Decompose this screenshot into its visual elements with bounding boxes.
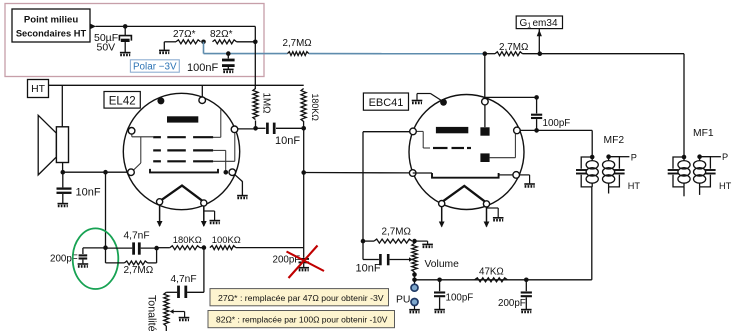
svg-text:MF2: MF2 — [604, 135, 625, 146]
ground (200pF rail) — [521, 310, 532, 312]
wire anode to HT rail — [201, 85, 203, 97]
green highlight ellipse — [73, 228, 119, 289]
node: pot bottom — [412, 272, 417, 277]
wire from blue node down to EBC41 — [484, 54, 486, 99]
resistor 2,7Mohm (volume) — [363, 240, 374, 242]
svg-text:EL42: EL42 — [109, 96, 136, 108]
node: 100pF rail tap — [437, 278, 442, 283]
IF transformer MF2 — [590, 155, 595, 160]
wire 303 column down to 100K rail — [303, 173, 305, 248]
resistor 2,7Mohm (top middle) — [288, 52, 309, 56]
svg-text:100nF: 100nF — [187, 62, 218, 74]
svg-text:4,7nF: 4,7nF — [124, 231, 150, 242]
svg-text:2,7MΩ: 2,7MΩ — [283, 38, 312, 49]
ground (PU) — [414, 306, 416, 309]
heater arrow right (EBC41) — [486, 207, 488, 227]
MF2 HT stub — [608, 187, 610, 194]
svg-text:P: P — [631, 152, 637, 162]
PU jack upper — [411, 284, 418, 291]
svg-text:HT: HT — [719, 181, 732, 191]
heater arrow right — [203, 206, 205, 226]
capacitor 4,7nF (tone) — [177, 286, 180, 298]
capacitor 10nF (coupling to 180K) — [256, 127, 266, 129]
wire rail to MF2 — [591, 187, 593, 280]
wire EBC41 grid column — [362, 132, 364, 241]
ground (50uF) — [120, 53, 131, 55]
EBC41 left pins — [410, 128, 417, 135]
EL42 internal routing — [220, 110, 222, 138]
wire EBC41 diode pin to MF2 — [520, 129, 592, 131]
ground (EBC41 heater) — [487, 207, 499, 209]
svg-text:100pF: 100pF — [446, 293, 474, 304]
EBC41 filament — [442, 186, 487, 203]
svg-text:MF1: MF1 — [693, 128, 714, 139]
ground (deleted 200pF) — [298, 268, 309, 270]
EBC41 cathode — [432, 173, 499, 178]
IF transformer MF1 — [682, 155, 687, 160]
wire to tone capacitor — [203, 248, 205, 293]
EBC41 top pin — [482, 98, 489, 105]
ground (100pF rail) — [434, 310, 445, 312]
wire HT column — [254, 26, 256, 89]
power supply annotation frame (pink) — [5, 4, 264, 77]
EBC41 right upper pin — [514, 127, 521, 134]
wire detector rail — [415, 279, 592, 281]
EBC41 grid (dashed row) — [433, 147, 448, 149]
red deletion cross — [287, 252, 325, 272]
arrow from Point milieu box — [90, 24, 96, 30]
EL42 bottom pins (heater) — [157, 199, 163, 205]
EL42 left pins — [128, 128, 135, 135]
svg-text:Volume: Volume — [425, 259, 460, 270]
tone wiper arrow — [170, 309, 174, 313]
svg-text:10nF: 10nF — [76, 187, 101, 199]
svg-text:82Ω*: 82Ω* — [210, 29, 233, 40]
svg-text:HT: HT — [628, 181, 641, 191]
tube EL42 envelope — [123, 93, 239, 209]
node: to EBC41 grid pin — [301, 170, 306, 175]
EL42 filament — [161, 186, 204, 202]
label box: HT — [28, 80, 49, 98]
wire G1em34 to node (with up arrow) — [538, 29, 540, 54]
ground (200pF cathode) — [78, 264, 89, 266]
label box: Polar -3V — [130, 60, 179, 72]
ground (EBC41 cathode) — [524, 184, 535, 186]
capacitor 100pF (EBC41) — [536, 97, 538, 113]
svg-text:HT: HT — [31, 84, 46, 95]
svg-text:50V: 50V — [97, 42, 116, 54]
svg-text:Tonalité: Tonalité — [146, 295, 158, 331]
svg-text:2,7MΩ: 2,7MΩ — [124, 265, 154, 276]
resistor 1Mohm — [253, 89, 258, 120]
svg-text:100KΩ: 100KΩ — [212, 234, 241, 245]
wire EL42 g2 pin to 1M node — [238, 128, 256, 130]
wire diode line down to MF2 — [591, 130, 593, 157]
note box 27 ohm replacement — [210, 289, 389, 306]
node: cathode RC left — [103, 245, 108, 250]
wire cathode pin to ground — [235, 175, 242, 182]
capacitor 10nF (speaker) — [62, 172, 64, 187]
svg-text:10nF: 10nF — [275, 135, 300, 147]
svg-text:27Ω*: 27Ω* — [173, 29, 196, 40]
svg-text:4,7nF: 4,7nF — [171, 274, 197, 285]
potentiometer Volume — [412, 243, 417, 272]
wire 180K column down — [303, 128, 305, 172]
svg-text:10nF: 10nF — [356, 263, 381, 275]
wire (blue) polarization line — [203, 42, 205, 54]
EL42 top pin (anode) — [199, 97, 206, 104]
heater arrow left (EBC41) — [441, 207, 443, 227]
svg-text:EBC41: EBC41 — [369, 97, 404, 109]
resistor 47Kohm — [475, 278, 508, 282]
node: speaker / cathode rail — [61, 170, 66, 175]
tube EBC41 envelope — [409, 95, 524, 210]
ground (100nF) — [223, 69, 234, 71]
svg-text:G1em34: G1em34 — [520, 18, 558, 30]
node: 200pF rail tap — [524, 278, 529, 283]
speaker (output transformer + cone) — [38, 115, 56, 175]
tube EBC41 label box — [363, 93, 408, 110]
node: volume top — [412, 239, 417, 244]
svg-text:180KΩ: 180KΩ — [173, 234, 202, 245]
resistor 82 ohm (starred) — [213, 40, 237, 44]
potentiometer Tonalite — [164, 292, 169, 326]
capacitor 4,7nF (cathode) — [106, 247, 133, 249]
node: 100pF bottom — [534, 128, 539, 133]
wire marker dot to ground — [416, 94, 418, 100]
capacitor 100pF (rail) — [439, 280, 441, 291]
svg-text:Secondaires HT: Secondaires HT — [16, 29, 87, 39]
node: junction 27/82 ohm — [201, 40, 206, 45]
node: grid/volume junction — [361, 239, 366, 244]
wire cathode network column — [105, 172, 107, 248]
svg-text:Point milieu: Point milieu — [24, 15, 79, 26]
svg-text:2,7MΩ: 2,7MΩ — [382, 227, 411, 238]
svg-text:P: P — [722, 152, 728, 162]
node: 180K/100K junction — [202, 245, 207, 250]
ground (10nF speaker) — [58, 204, 69, 206]
wire top rail from Point milieu — [96, 25, 256, 27]
node: 1M / g2 / 10nF — [253, 126, 258, 131]
node: G1em34 junction — [538, 51, 543, 56]
node: RC right — [154, 246, 159, 251]
svg-text:180KΩ: 180KΩ — [310, 94, 320, 122]
svg-text:1MΩ: 1MΩ — [261, 93, 272, 114]
node: rail to tone network — [103, 170, 108, 175]
node: 100nF tap — [226, 51, 231, 56]
capacitor 100nF — [227, 54, 229, 59]
MF1 stubs — [683, 187, 685, 196]
resistor 2,7Mohm (cathode, parallel) — [105, 248, 107, 263]
node: cathode junction — [224, 170, 229, 175]
svg-text:100pF: 100pF — [543, 118, 571, 129]
EBC41 internals — [484, 105, 486, 127]
capacitor 200pF (deleted, crossed) — [303, 248, 305, 258]
svg-text:PU: PU — [396, 294, 410, 305]
wire MF2 P tap — [619, 156, 629, 158]
EL42 cathode — [150, 169, 218, 173]
node: pot / PU / rail — [412, 278, 417, 283]
EBC41 right lower pin (cathode) — [499, 174, 513, 176]
svg-text:200pF: 200pF — [498, 298, 526, 309]
EBC41 bottom pins (heater) — [439, 201, 445, 207]
node: 50uF tap — [123, 24, 128, 29]
heater arrow left — [159, 205, 161, 226]
ground (EBC41 marker) — [412, 101, 423, 103]
resistor 180Kohm (vertical) — [301, 89, 306, 122]
resistor 2,7Mohm (top right) — [485, 53, 495, 55]
svg-text:2,7MΩ: 2,7MΩ — [499, 42, 528, 53]
wire to MF1 — [540, 53, 684, 55]
EL42 pin-1 marker dot — [157, 97, 164, 104]
node: end of blue line — [483, 51, 488, 56]
wire MF1 P tap — [710, 156, 721, 158]
capacitor 10nF (PU input) — [362, 241, 364, 259]
EL42 anode plate — [167, 116, 198, 122]
resistor 27 ohm (starred) — [164, 41, 176, 43]
wire cathode rail — [63, 171, 128, 173]
node: 180K bottom — [301, 126, 306, 131]
wire to EBC41 lower-left pin — [304, 172, 410, 174]
svg-text:47KΩ: 47KΩ — [479, 267, 504, 278]
svg-text:27Ω* : remplacée par 47Ω pour: 27Ω* : remplacée par 47Ω pour obtenir -3… — [218, 293, 384, 303]
ground (EL42 heater) — [204, 210, 215, 212]
label box: Point milieu / Secondaires HT — [12, 9, 90, 42]
ground (EL42 cathode) — [237, 196, 248, 198]
node: 100pF top — [534, 95, 539, 100]
svg-text:Polar −3V: Polar −3V — [133, 61, 177, 72]
note box 82 ohm replacement — [208, 311, 395, 328]
resistor 100Kohm — [210, 246, 236, 250]
svg-text:82Ω* : remplacée par 100Ω pou: 82Ω* : remplacée par 100Ω pour obtenir -… — [216, 315, 388, 325]
resistor 180Kohm (tone) — [157, 247, 170, 249]
ground (volume top) — [415, 240, 428, 242]
capacitor 200pF (rail) — [525, 280, 527, 291]
PU jack lower — [411, 299, 418, 306]
wire top pin to 100pF node — [485, 96, 537, 98]
tube EL42 label box — [104, 92, 140, 109]
volume wiper arrow — [409, 257, 413, 262]
label box: G1 em34 — [516, 16, 562, 29]
ground (27 ohm) — [159, 50, 170, 52]
capacitor 50uF 50V (electrolytic) — [124, 26, 126, 35]
EL42 right pins — [231, 126, 238, 133]
EBC41 pin-1 marker dot — [440, 99, 447, 106]
wire to output transformer — [61, 85, 63, 127]
node: 82 ohm / HT column — [253, 40, 258, 45]
capacitor 200pF (cathode, circled) — [83, 247, 106, 249]
EL42 grids (dashed rows) — [153, 136, 161, 138]
wire HT rail — [49, 84, 304, 86]
ground (tone wiper) — [179, 318, 190, 320]
